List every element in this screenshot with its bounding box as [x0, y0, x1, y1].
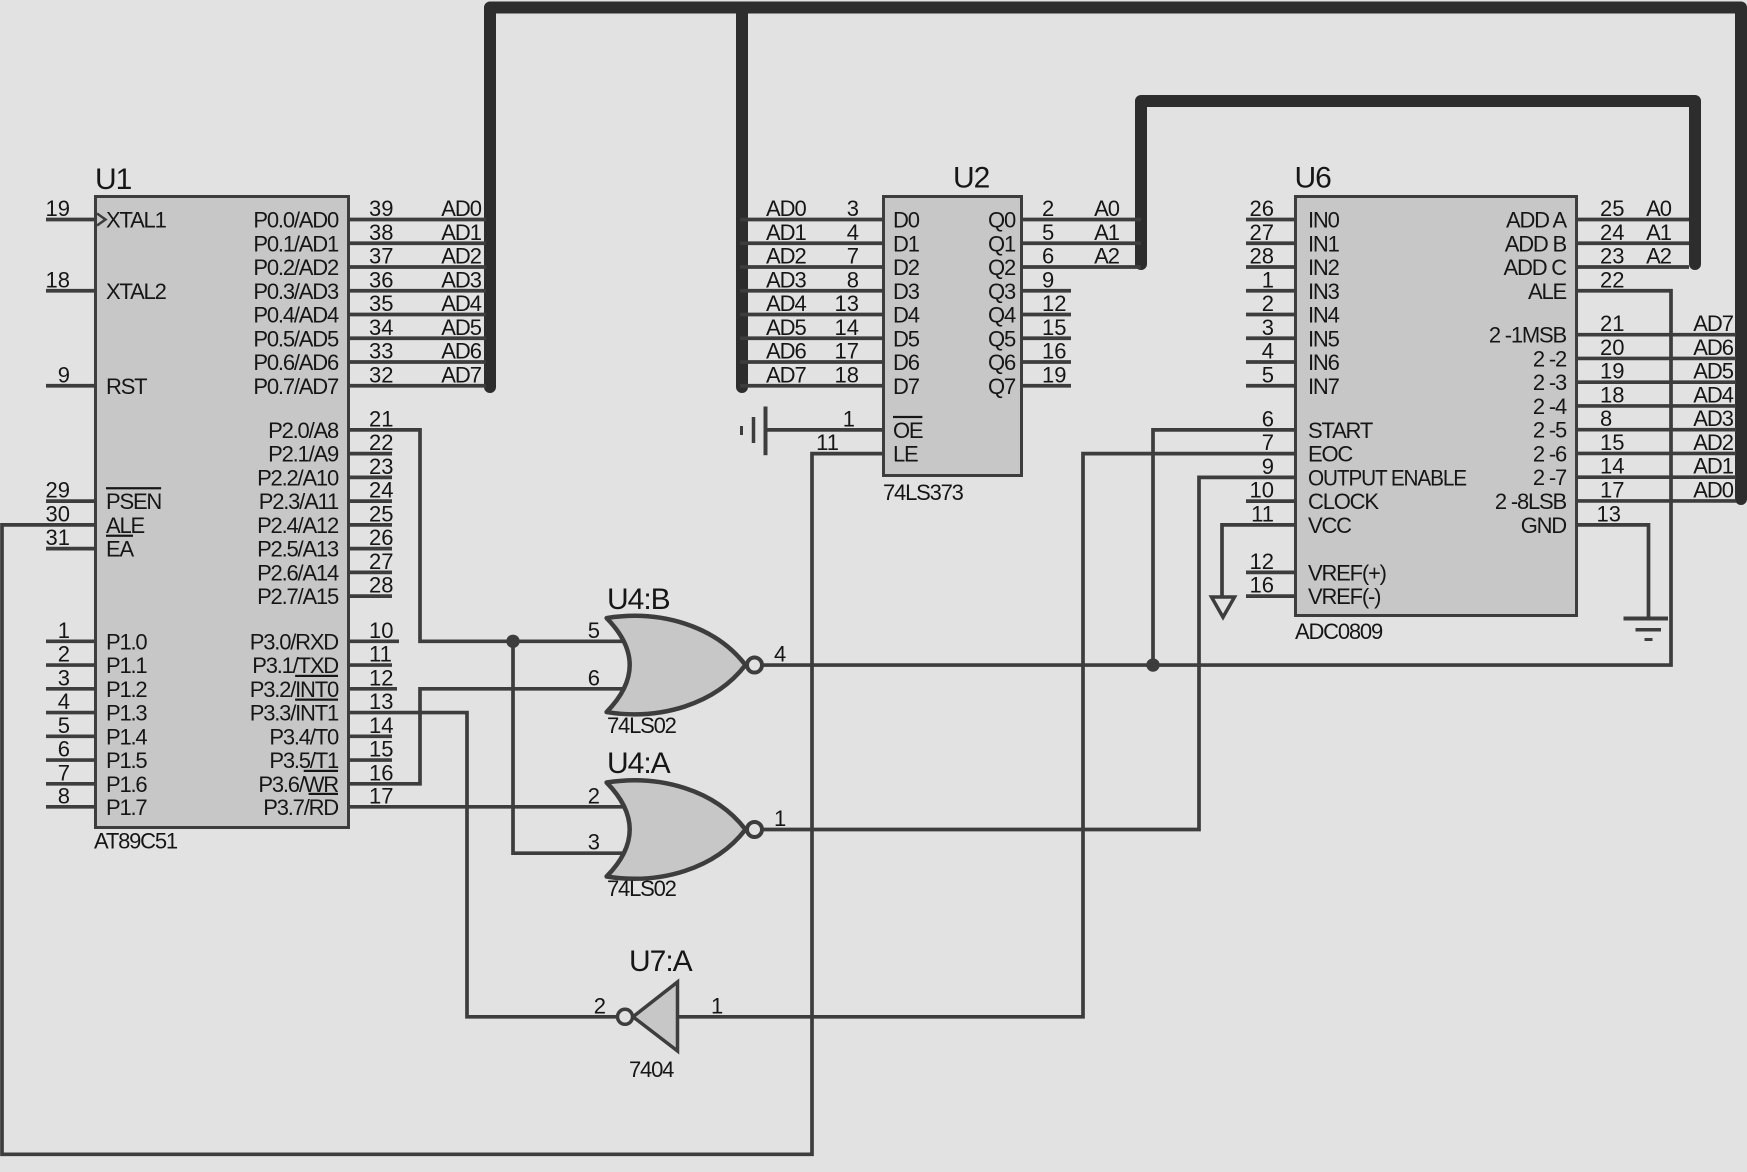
microcontroller U1 AT89C51	[94, 163, 349, 854]
svg-text:AD6: AD6	[441, 339, 482, 364]
svg-text:17: 17	[1600, 477, 1624, 502]
svg-text:VCC: VCC	[1308, 513, 1352, 538]
svg-text:GND: GND	[1521, 513, 1567, 538]
wire U2 pin 14 D5 from bus	[740, 315, 882, 340]
wire U1 pin 8 P1.7 stub	[46, 783, 94, 808]
svg-text:P0.3/AD3: P0.3/AD3	[253, 279, 339, 304]
ground symbol at U6 GND	[1624, 619, 1669, 640]
wire U6 pin 21 data out 2-1 to bus	[1578, 311, 1736, 336]
svg-text:2 -3: 2 -3	[1533, 370, 1567, 395]
svg-text:P2.3/A11: P2.3/A11	[259, 489, 339, 514]
svg-text:AD3: AD3	[441, 267, 482, 292]
svg-text:23: 23	[369, 454, 393, 479]
svg-text:P0.0/AD0: P0.0/AD0	[253, 208, 339, 233]
svg-text:P0.2/AD2: P0.2/AD2	[253, 255, 339, 280]
svg-text:P2.5/A13: P2.5/A13	[257, 537, 339, 562]
wire U6 pin 12 VREF(+) stub	[1246, 549, 1294, 574]
svg-text:18: 18	[46, 267, 70, 292]
svg-text:17: 17	[369, 783, 393, 808]
svg-text:A1: A1	[1646, 220, 1672, 245]
svg-text:AD1: AD1	[441, 220, 482, 245]
svg-text:AD7: AD7	[441, 362, 482, 387]
wire U2 pin 3 D0 from bus	[740, 196, 882, 221]
svg-text:AD1: AD1	[1693, 454, 1734, 479]
svg-text:P0.5/AD5: P0.5/AD5	[253, 326, 339, 351]
svg-text:OE: OE	[893, 418, 923, 443]
wire U6 pin 26 IN0 stub	[1246, 196, 1294, 221]
svg-text:2 -1MSB: 2 -1MSB	[1489, 323, 1567, 348]
svg-text:74LS02: 74LS02	[607, 713, 677, 738]
svg-text:18: 18	[835, 362, 859, 387]
wire U6 pin 28 IN2 stub	[1246, 244, 1294, 269]
svg-text:AD6: AD6	[1693, 335, 1734, 360]
svg-text:7404: 7404	[629, 1057, 674, 1082]
svg-text:AD5: AD5	[441, 315, 482, 340]
wire U1 pin 2 P1.1 stub	[46, 642, 94, 667]
svg-text:30: 30	[46, 501, 70, 526]
svg-text:AD0: AD0	[766, 196, 807, 221]
svg-text:2 -2: 2 -2	[1533, 346, 1567, 371]
svg-text:U2: U2	[953, 162, 990, 195]
svg-text:9: 9	[1262, 454, 1274, 479]
latch U2 74LS373	[883, 162, 1022, 506]
wire U6 pin 20 data out 2-2 to bus	[1578, 335, 1736, 360]
svg-text:15: 15	[369, 737, 393, 762]
svg-text:P2.7/A15: P2.7/A15	[257, 584, 339, 609]
svg-text:P2.1/A9: P2.1/A9	[268, 442, 339, 467]
svg-text:6: 6	[1262, 406, 1274, 431]
wire U1 pin 22 P2.1 stub	[350, 430, 393, 455]
svg-text:AD3: AD3	[1693, 406, 1734, 431]
wire net ALE-ADC: U6 pin 22 to U4:B pin 4 output	[763, 267, 1671, 666]
svg-text:19: 19	[1600, 359, 1624, 384]
svg-text:P3.7/RD: P3.7/RD	[263, 795, 338, 820]
svg-text:2 -5: 2 -5	[1533, 418, 1567, 443]
svg-text:START: START	[1308, 418, 1373, 443]
svg-text:34: 34	[369, 315, 393, 340]
svg-text:2 -7: 2 -7	[1533, 465, 1567, 490]
svg-text:4: 4	[58, 689, 70, 714]
wire U6 pin 5 IN7 stub	[1246, 362, 1294, 387]
wire U2 pin 6 Q2 to bus	[1023, 244, 1141, 269]
svg-text:D4: D4	[893, 303, 920, 328]
wire U6 pin 11 VCC to power arrow	[1222, 501, 1294, 597]
svg-text:P2.0/A8: P2.0/A8	[268, 418, 339, 443]
svg-text:2 -6: 2 -6	[1533, 441, 1567, 466]
svg-text:3: 3	[847, 196, 859, 221]
svg-text:20: 20	[1600, 335, 1624, 360]
power-down arrow symbol on VCC	[1212, 597, 1235, 617]
svg-text:P1.1: P1.1	[106, 653, 147, 678]
wire U6 pin 1 IN3 stub	[1246, 267, 1294, 292]
svg-text:5: 5	[1262, 362, 1274, 387]
svg-text:AT89C51: AT89C51	[94, 829, 178, 854]
svg-text:4: 4	[847, 220, 859, 245]
svg-text:13: 13	[835, 291, 859, 316]
svg-text:12: 12	[1042, 291, 1066, 316]
svg-text:AD7: AD7	[766, 362, 807, 387]
svg-text:ADD C: ADD C	[1504, 255, 1568, 280]
wire U6 pin 4 IN6 stub	[1246, 339, 1294, 364]
svg-text:Q1: Q1	[988, 231, 1016, 256]
svg-text:7: 7	[847, 244, 859, 269]
wire U6 pin 14 data out 2-7 to bus	[1578, 454, 1736, 479]
wire U2 pin 19 Q7 stub	[1023, 362, 1071, 387]
svg-text:AD0: AD0	[1693, 477, 1734, 502]
svg-text:74LS02: 74LS02	[607, 876, 677, 901]
svg-text:2 -4: 2 -4	[1533, 394, 1567, 419]
wire U1 pin 4 P1.3 stub	[46, 689, 94, 714]
wire U6 pin 19 data out 2-3 to bus	[1578, 359, 1736, 384]
svg-text:Q3: Q3	[988, 279, 1016, 304]
svg-text:9: 9	[1042, 267, 1054, 292]
wire net INT1: U1 pin 13 P3.3 to U7:A pin 2	[350, 689, 617, 1018]
svg-text:Q6: Q6	[988, 350, 1016, 375]
svg-text:5: 5	[1042, 220, 1054, 245]
svg-text:ALE: ALE	[1528, 279, 1567, 304]
wire U6 pin 23 ADD to bus	[1578, 244, 1689, 269]
svg-text:39: 39	[369, 196, 393, 221]
svg-text:24: 24	[1600, 220, 1624, 245]
wire U1 pin 33 P0.6/AD6 to bus	[350, 339, 486, 364]
wire U6 pin 2 IN4 stub	[1246, 291, 1294, 316]
svg-text:P0.1/AD1: P0.1/AD1	[253, 231, 339, 256]
svg-text:CLOCK: CLOCK	[1308, 489, 1379, 514]
wire U6 pin 15 data out 2-6 to bus	[1578, 430, 1736, 455]
svg-text:13: 13	[1597, 501, 1621, 526]
svg-text:14: 14	[369, 713, 393, 738]
junction node on START/ALE net	[1146, 658, 1159, 671]
wire U1 pin 15 P3.5 stub	[350, 737, 393, 762]
svg-text:P1.4: P1.4	[106, 724, 147, 749]
wire net OE-ADC: U6 pin 9 to U4:A pin 1 output	[762, 454, 1294, 831]
svg-text:16: 16	[1042, 339, 1066, 364]
svg-text:P2.4/A12: P2.4/A12	[257, 513, 339, 538]
wire net RD: U1 pin 17 P3.7 to U4:A pin 2	[350, 783, 627, 808]
svg-text:8: 8	[847, 267, 859, 292]
svg-text:AD7: AD7	[1693, 311, 1734, 336]
wire U1 pin 32 P0.7/AD7 to bus	[350, 362, 486, 387]
svg-text:AD4: AD4	[441, 291, 482, 316]
svg-text:26: 26	[1250, 196, 1274, 221]
wire net EOC: U6 pin 7 to U7:A pin 1	[678, 430, 1295, 1018]
svg-text:2: 2	[588, 783, 600, 808]
svg-text:AD5: AD5	[1693, 359, 1734, 384]
svg-text:P0.4/AD4: P0.4/AD4	[253, 303, 339, 328]
wire U2 pin 16 Q6 stub	[1023, 339, 1071, 364]
wire U1 pin 29 PSEN stub	[46, 478, 94, 503]
svg-text:1: 1	[58, 618, 70, 643]
svg-text:AD2: AD2	[1693, 430, 1734, 455]
svg-text:U6: U6	[1295, 162, 1332, 195]
wire U1 pin 25 P2.4 stub	[350, 501, 393, 526]
svg-text:Q4: Q4	[988, 303, 1016, 328]
svg-text:P1.2: P1.2	[106, 677, 147, 702]
wire U6 pin 17 data out 2-8 to bus	[1578, 477, 1736, 502]
svg-text:P2.2/A10: P2.2/A10	[257, 465, 339, 490]
svg-text:14: 14	[835, 315, 859, 340]
svg-text:2: 2	[58, 642, 70, 667]
svg-text:XTAL1: XTAL1	[106, 208, 167, 233]
wire U2 pin 2 Q0 to bus	[1023, 196, 1141, 221]
svg-text:A1: A1	[1094, 220, 1120, 245]
svg-text:P1.7: P1.7	[106, 795, 147, 820]
svg-text:P3.2/INT0: P3.2/INT0	[250, 677, 339, 702]
svg-text:Q5: Q5	[988, 326, 1016, 351]
svg-text:16: 16	[369, 760, 393, 785]
svg-text:EOC: EOC	[1308, 442, 1353, 467]
wire U1 pin 6 P1.5 stub	[46, 737, 94, 762]
svg-text:VREF(+): VREF(+)	[1308, 560, 1386, 585]
wire U2 pin 9 Q3 stub	[1023, 267, 1071, 292]
svg-text:Q0: Q0	[988, 208, 1016, 233]
svg-text:P2.6/A14: P2.6/A14	[257, 560, 339, 585]
svg-text:ALE: ALE	[106, 513, 145, 538]
svg-text:P1.3: P1.3	[106, 701, 147, 726]
svg-text:P3.5/T1: P3.5/T1	[269, 748, 339, 773]
wire U1 pin 18 XTAL2 stub	[46, 267, 94, 292]
svg-text:D3: D3	[893, 279, 920, 304]
svg-text:27: 27	[369, 549, 393, 574]
ground symbol on U2 OE	[742, 407, 766, 456]
svg-text:2: 2	[594, 993, 606, 1018]
wire U2 pin 12 Q4 stub	[1023, 291, 1071, 316]
svg-text:3: 3	[1262, 315, 1274, 340]
svg-text:25: 25	[369, 501, 393, 526]
svg-text:D7: D7	[893, 374, 920, 399]
svg-text:36: 36	[369, 267, 393, 292]
svg-text:AD2: AD2	[766, 244, 807, 269]
wire U1 pin 26 P2.5 stub	[350, 525, 393, 550]
svg-text:AD1: AD1	[766, 220, 807, 245]
svg-text:21: 21	[1600, 311, 1624, 336]
wire U1 pin 38 P0.1/AD1 to bus	[350, 220, 486, 245]
wire U1 pin 34 P0.5/AD5 to bus	[350, 315, 486, 340]
svg-text:RST: RST	[106, 374, 147, 399]
svg-text:U4:B: U4:B	[607, 583, 670, 616]
wire U1 pin 5 P1.4 stub	[46, 713, 94, 738]
wire U1 pin 11 P3.1 stub	[350, 642, 392, 667]
wire U1 pin 31 EA stub	[46, 525, 94, 550]
svg-text:15: 15	[1042, 315, 1066, 340]
svg-text:AD5: AD5	[766, 315, 807, 340]
wire U6 pin 25 ADD to bus	[1578, 196, 1689, 221]
wire U2 pin 5 Q1 to bus	[1023, 220, 1141, 245]
svg-text:AD4: AD4	[1693, 382, 1734, 407]
wire U6 pin 18 data out 2-4 to bus	[1578, 382, 1736, 407]
svg-text:IN7: IN7	[1308, 374, 1340, 399]
svg-text:1: 1	[711, 993, 723, 1018]
svg-text:A2: A2	[1646, 244, 1672, 269]
svg-text:29: 29	[46, 478, 70, 503]
svg-text:P3.0/RXD: P3.0/RXD	[250, 629, 339, 654]
wire U2 pin 13 D4 from bus	[740, 291, 882, 316]
svg-text:6: 6	[1042, 244, 1054, 269]
svg-text:A0: A0	[1646, 196, 1672, 221]
svg-text:AD2: AD2	[441, 244, 482, 269]
svg-text:2: 2	[1262, 291, 1274, 316]
svg-text:11: 11	[1251, 501, 1274, 526]
svg-text:1: 1	[1262, 267, 1274, 292]
wire U1 pin 10 P3.0 stub	[350, 618, 399, 643]
wire net START: U6 pin 6 to U4:B output net	[1153, 406, 1294, 665]
wire U6 pin 10 CLOCK stub	[1246, 478, 1294, 503]
svg-text:17: 17	[835, 339, 859, 364]
svg-text:U7:A: U7:A	[629, 945, 693, 978]
wire U1 pin 23 P2.2 stub	[350, 454, 393, 479]
svg-text:7: 7	[1262, 430, 1274, 455]
svg-text:IN1: IN1	[1308, 231, 1340, 256]
svg-text:28: 28	[1250, 244, 1274, 269]
svg-text:OUTPUT ENABLE: OUTPUT ENABLE	[1308, 465, 1466, 490]
svg-text:8: 8	[1600, 406, 1612, 431]
svg-text:P3.4/T0: P3.4/T0	[269, 724, 339, 749]
svg-text:28: 28	[369, 573, 393, 598]
svg-text:27: 27	[1250, 220, 1274, 245]
svg-text:A2: A2	[1094, 244, 1120, 269]
wire U1 pin 12 P3.2 stub	[350, 665, 397, 690]
wire U1 pin 7 P1.6 stub	[46, 760, 94, 785]
svg-text:AD3: AD3	[766, 267, 807, 292]
svg-text:31: 31	[46, 525, 70, 550]
wire U1 pin 9 RST stub	[46, 362, 94, 387]
ADC U6 ADC0809	[1295, 162, 1577, 644]
svg-text:4: 4	[1262, 339, 1274, 364]
svg-text:A0: A0	[1094, 196, 1120, 221]
wire U1 pin 27 P2.6 stub	[350, 549, 393, 574]
svg-text:IN5: IN5	[1308, 326, 1340, 351]
svg-text:33: 33	[369, 339, 393, 364]
wire U1 pin 19 XTAL1 stub	[46, 196, 94, 221]
svg-text:AD6: AD6	[766, 339, 807, 364]
wire U2 pin 15 Q5 stub	[1023, 315, 1071, 340]
svg-text:23: 23	[1600, 244, 1624, 269]
wire U1 pin 39 P0.0/AD0 to bus	[350, 196, 486, 221]
svg-text:24: 24	[369, 478, 393, 503]
svg-text:1: 1	[843, 406, 855, 431]
svg-text:35: 35	[369, 291, 393, 316]
wire U1 pin 28 P2.7 stub	[350, 573, 393, 598]
svg-text:22: 22	[1600, 267, 1624, 292]
svg-text:P1.5: P1.5	[106, 748, 147, 773]
svg-text:5: 5	[58, 713, 70, 738]
svg-text:D0: D0	[893, 208, 920, 233]
wire U6 pin 16 VREF(-) stub	[1246, 573, 1294, 598]
svg-text:38: 38	[369, 220, 393, 245]
svg-text:6: 6	[588, 665, 600, 690]
svg-text:3: 3	[58, 665, 70, 690]
svg-text:16: 16	[1250, 573, 1274, 598]
svg-text:P1.0: P1.0	[106, 629, 147, 654]
svg-text:D6: D6	[893, 350, 920, 375]
svg-text:11: 11	[369, 642, 392, 667]
svg-text:10: 10	[1250, 478, 1274, 503]
wire U2 pin 17 D6 from bus	[740, 339, 882, 364]
svg-text:P3.3/INT1: P3.3/INT1	[250, 701, 339, 726]
wire U6 pin 3 IN5 stub	[1246, 315, 1294, 340]
svg-text:U1: U1	[95, 163, 132, 196]
wire U1 pin 24 P2.3 stub	[350, 478, 393, 503]
svg-text:19: 19	[46, 196, 70, 221]
svg-text:1: 1	[774, 806, 786, 831]
svg-text:IN2: IN2	[1308, 255, 1340, 280]
wire U6 pin 24 ADD to bus	[1578, 220, 1689, 245]
svg-text:IN6: IN6	[1308, 350, 1340, 375]
inverter U7:A 7404	[618, 945, 693, 1082]
svg-text:D5: D5	[893, 326, 920, 351]
svg-text:IN0: IN0	[1308, 208, 1340, 233]
svg-text:7: 7	[58, 760, 70, 785]
svg-text:14: 14	[1600, 454, 1624, 479]
svg-text:P0.6/AD6: P0.6/AD6	[253, 350, 339, 375]
svg-text:9: 9	[58, 362, 70, 387]
svg-text:19: 19	[1042, 362, 1066, 387]
wire U6 pin 27 IN1 stub	[1246, 220, 1294, 245]
svg-text:ADD A: ADD A	[1506, 208, 1568, 233]
svg-text:D2: D2	[893, 255, 920, 280]
svg-text:D1: D1	[893, 231, 920, 256]
svg-text:15: 15	[1600, 430, 1624, 455]
svg-text:PSEN: PSEN	[106, 489, 161, 514]
svg-text:3: 3	[588, 830, 600, 855]
svg-text:37: 37	[369, 244, 393, 269]
svg-text:P3.6/WR: P3.6/WR	[258, 772, 338, 797]
svg-text:P3.1/TXD: P3.1/TXD	[252, 653, 338, 678]
svg-text:8: 8	[58, 783, 70, 808]
svg-text:21: 21	[369, 406, 393, 431]
svg-text:XTAL2: XTAL2	[106, 279, 167, 304]
NOR gate U4:B 74LS02	[607, 583, 762, 738]
svg-text:Q2: Q2	[988, 255, 1016, 280]
svg-text:Q7: Q7	[988, 374, 1016, 399]
svg-text:EA: EA	[106, 537, 134, 562]
bus A0-A2 (latched address bus)	[1141, 101, 1695, 264]
wire U1 pin 14 P3.4 stub	[350, 713, 393, 738]
svg-text:6: 6	[58, 737, 70, 762]
wire U2 pin 7 D2 from bus	[740, 244, 882, 269]
svg-text:U4:A: U4:A	[607, 747, 671, 780]
svg-text:25: 25	[1600, 196, 1624, 221]
wire U1 pin 35 P0.4/AD4 to bus	[350, 291, 486, 316]
svg-text:74LS373: 74LS373	[883, 480, 964, 505]
svg-text:5: 5	[588, 618, 600, 643]
wire U6 pin 13 GND to ground	[1578, 501, 1649, 617]
wire U2 pin 18 D7 from bus	[740, 362, 882, 387]
NOR gate U4:A 74LS02	[607, 747, 762, 901]
svg-text:ADD B: ADD B	[1505, 231, 1567, 256]
svg-text:P1.6: P1.6	[106, 772, 147, 797]
svg-text:22: 22	[369, 430, 393, 455]
svg-text:4: 4	[774, 642, 786, 667]
svg-text:12: 12	[369, 665, 393, 690]
wire U2 pin 8 D3 from bus	[740, 267, 882, 292]
junction node on A8 net	[506, 635, 519, 648]
svg-text:18: 18	[1600, 382, 1624, 407]
svg-text:13: 13	[369, 689, 393, 714]
wire U1 pin 3 P1.2 stub	[46, 665, 94, 690]
wire U1 pin 37 P0.2/AD2 to bus	[350, 244, 486, 269]
svg-text:IN3: IN3	[1308, 279, 1340, 304]
wire U6 pin 8 data out 2-5 to bus	[1578, 406, 1736, 431]
svg-text:LE: LE	[893, 442, 918, 467]
bus AD0-AD7 (top data bus)	[490, 8, 1741, 500]
wire U1 pin 1 P1.0 stub	[46, 618, 94, 643]
svg-text:ADC0809: ADC0809	[1295, 619, 1383, 644]
wire U2 pin 1 OE to ground	[766, 406, 883, 431]
wire net WR: U1 pin 16 P3.6 to U4:B pin 6	[350, 665, 627, 785]
wire U1 pin 36 P0.3/AD3 to bus	[350, 267, 486, 292]
wire net A8: U1 pin 21 P2.0 to U4:B pin 5 and U4:A pin 3	[350, 406, 627, 854]
